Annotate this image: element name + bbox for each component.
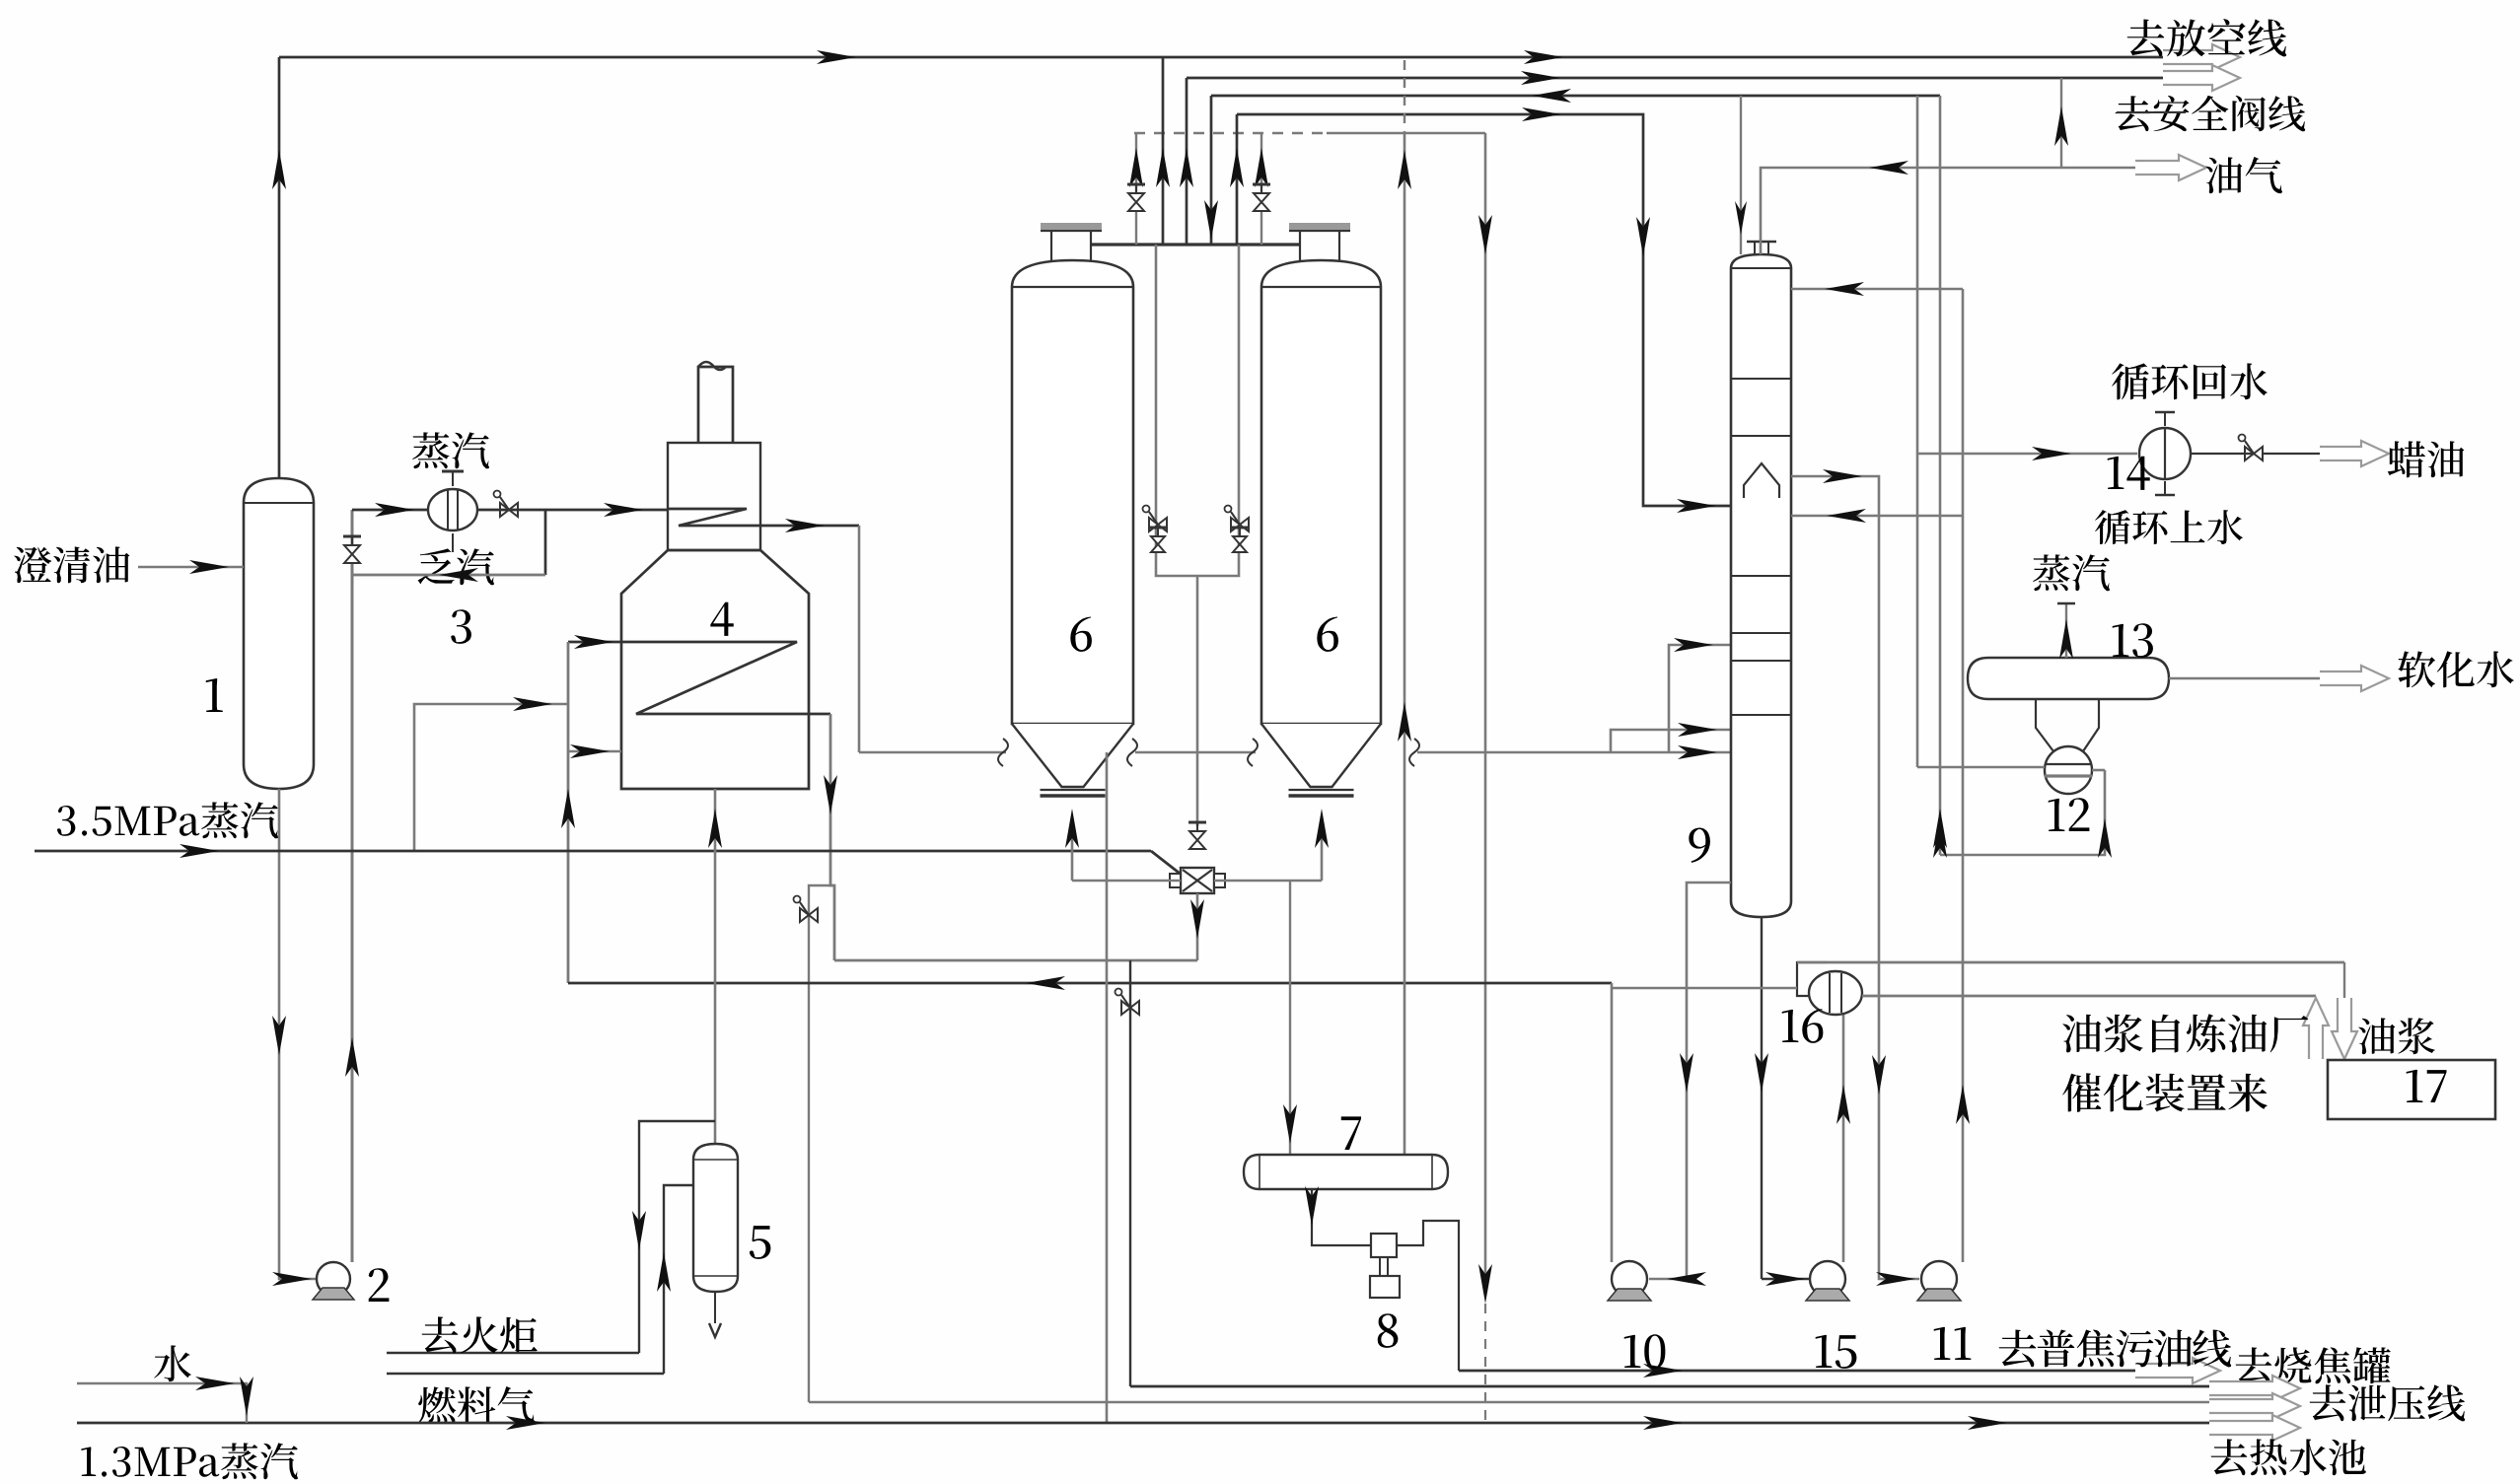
pipe 3.5MPa steam bbox=[35, 850, 1151, 853]
pump 2 bbox=[317, 1262, 350, 1296]
outline arrow slurry out bbox=[2303, 998, 2329, 1059]
pipe to exchanger 3 bbox=[352, 509, 429, 512]
outline arrow oil gas bbox=[2135, 155, 2206, 180]
pipe water makeup bbox=[77, 1383, 247, 1423]
vessel 5 drain bbox=[714, 1292, 716, 1323]
pipe safety-valve header bbox=[1187, 77, 2163, 80]
label 燃料气 bbox=[418, 1386, 535, 1423]
pipe recycle header (flow left) bbox=[1211, 95, 1940, 98]
pipe slurry header bbox=[834, 959, 1197, 962]
heat exchanger 16 bbox=[1797, 962, 1827, 996]
pipe slurry riser 1967 bbox=[1939, 96, 1942, 855]
pipe dropper x1122 bbox=[1106, 752, 1109, 1423]
pipe riser x1424 bbox=[1404, 60, 1405, 132]
label 蒸汽 exch3 bbox=[412, 432, 489, 468]
label pump 11 bbox=[1934, 1327, 1972, 1360]
riser a bbox=[1135, 133, 1137, 245]
cross slide valve bbox=[1181, 868, 1214, 893]
pipe bypass right leg bbox=[544, 510, 547, 575]
label 水 bbox=[154, 1345, 191, 1381]
riser e bbox=[1236, 114, 1239, 245]
valve standpipe left b bbox=[1151, 536, 1165, 552]
pipe coil exit upper leg bbox=[858, 526, 861, 752]
slurry tank 17 bbox=[2328, 1060, 2495, 1119]
label pump 15 bbox=[1816, 1335, 1857, 1369]
pipe exchanger line B bbox=[1862, 995, 2316, 998]
pipe cross to reactorA bbox=[1071, 823, 1074, 881]
reactor 6 right bbox=[1261, 260, 1381, 724]
manifold plate bbox=[1092, 243, 1300, 246]
pipe vessel1 vent bbox=[278, 57, 281, 478]
valve standpipe right bbox=[1231, 518, 1249, 531]
steam drum 13 bbox=[1968, 658, 2169, 699]
valve on bypass bbox=[344, 545, 360, 563]
label 去烧焦罐 bbox=[2236, 1347, 2391, 1383]
label 1.3MPa蒸汽 bbox=[81, 1443, 298, 1479]
label furnace 4 bbox=[710, 602, 733, 636]
pump 10 bbox=[1612, 1261, 1647, 1297]
riser d bbox=[1210, 96, 1213, 245]
pipe line3 to column riser bbox=[1740, 96, 1742, 254]
pipe fuel gas line bbox=[664, 1185, 693, 1374]
label vessel 7 bbox=[1341, 1116, 1361, 1150]
label exchanger 3 bbox=[451, 609, 471, 644]
column 9 shell bbox=[1731, 254, 1791, 917]
label 去安全阀线 bbox=[2116, 96, 2306, 131]
vessel 5 bbox=[693, 1144, 738, 1292]
pipe dropper x1146 with valve bbox=[1129, 960, 1131, 1386]
vessel 1 column bbox=[244, 478, 314, 789]
column 9 vapor chevron bbox=[1744, 463, 1779, 498]
pipe steam branch to furnace bbox=[414, 704, 568, 851]
label 去热水池 bbox=[2211, 1439, 2366, 1475]
pipe transfer line left bbox=[859, 751, 1006, 754]
pipe 8 discharge bbox=[1397, 1221, 1459, 1371]
instrument 8 lower box bbox=[1370, 1276, 1400, 1298]
pipe sloppy oil line bbox=[1459, 1370, 2135, 1373]
label 油浆自炼油厂 bbox=[2062, 1014, 2308, 1052]
pipe quench header bbox=[1237, 114, 1731, 506]
pipe return 523 bbox=[1791, 515, 1963, 518]
pipe decoking line bbox=[1130, 1385, 2209, 1388]
pump 11 bbox=[1921, 1261, 1957, 1297]
pump 14 (cooler) bbox=[2139, 428, 2191, 479]
pipe 1.3MPa steam bbox=[77, 1422, 2209, 1425]
pipe pump11 discharge bbox=[1962, 289, 1965, 1262]
outline arrow soft water bbox=[2320, 666, 2389, 691]
pipe blowdown leg with valve bbox=[809, 885, 832, 1402]
pipe recycle oil line bbox=[568, 982, 1612, 985]
outline arrow safety valve line bbox=[2163, 65, 2240, 91]
label 17 bbox=[2407, 1070, 2447, 1102]
pipe exchanger feed bbox=[1612, 987, 1797, 989]
pipe pump10 discharge bbox=[1611, 983, 1614, 1262]
pipe flare line bbox=[639, 1121, 715, 1353]
valve on dropper 1146 bbox=[1121, 1001, 1139, 1015]
label 去火炬 bbox=[422, 1316, 538, 1353]
label 乏汽 bbox=[418, 548, 494, 585]
label 12 bbox=[2049, 798, 2090, 831]
pipe standpipe center bbox=[1196, 576, 1199, 826]
pipe column bottoms bbox=[1761, 917, 1763, 1279]
outline arrow slurry in bbox=[2332, 998, 2357, 1059]
pipe wax oil out bbox=[2191, 453, 2254, 455]
valve after 14 bbox=[2245, 447, 2263, 460]
tick under label bbox=[2117, 111, 2186, 113]
pipe pump15 discharge bbox=[1842, 1014, 1845, 1262]
valve riser f bbox=[1254, 193, 1269, 211]
pipe exchanger outlet to furnace bbox=[476, 509, 668, 512]
valve standpipe right b bbox=[1233, 536, 1247, 552]
label reactor 6 left bbox=[1070, 617, 1092, 652]
label 3.5MPa蒸汽 bbox=[57, 802, 278, 838]
furnace 4 lower coil bbox=[568, 642, 830, 714]
pipe furnace entry 2 bbox=[568, 750, 621, 753]
outline arrow vent line bbox=[2163, 44, 2240, 70]
label 去泄压线 bbox=[2310, 1384, 2466, 1421]
pipe cross discharge bbox=[1196, 893, 1199, 960]
furnace 4 body bbox=[621, 550, 809, 789]
pipe column bottom left draw bbox=[1649, 883, 1731, 1279]
valve riser a bbox=[1128, 193, 1144, 211]
pipe column entry 654 stub bbox=[1669, 645, 1731, 752]
label vessel 5 bbox=[750, 1226, 771, 1259]
pipe furnace coil exit downleg bbox=[830, 714, 834, 960]
label 循环上水 bbox=[2095, 510, 2243, 544]
label column 9 bbox=[1689, 828, 1710, 863]
label reactor 6 right bbox=[1317, 617, 1338, 652]
pipe cross to reactorB bbox=[1321, 823, 1324, 881]
label pump 10 bbox=[1624, 1334, 1666, 1369]
pipe to pump 14 bbox=[1917, 453, 2137, 455]
outline arrow relief bbox=[2209, 1393, 2300, 1419]
vessel 7 bbox=[1244, 1155, 1448, 1189]
pipe oilgas to safety header bbox=[2060, 78, 2062, 168]
pipe relief line bbox=[809, 1401, 2209, 1404]
pipe dashed manifold header bbox=[1134, 132, 1327, 135]
label vessel 1 bbox=[206, 678, 223, 712]
pipe drum steam out bbox=[2065, 603, 2067, 658]
outline arrow wax oil bbox=[2320, 441, 2389, 466]
riser c bbox=[1186, 78, 1188, 245]
outline arrow sloppy oil bbox=[2135, 1358, 2220, 1383]
valve on blowdown leg bbox=[800, 908, 818, 922]
valve above cross bbox=[1189, 831, 1205, 849]
pipe drum to soft water bbox=[2169, 677, 2320, 679]
pump 12 bbox=[2045, 746, 2092, 794]
pipe column entry upper stub bbox=[1611, 730, 1731, 752]
outline arrow decoking bbox=[2209, 1376, 2300, 1401]
label 澄清油 bbox=[14, 546, 129, 583]
furnace 4 upper coil bbox=[668, 509, 859, 526]
label 软化水 bbox=[2398, 651, 2514, 687]
pump 15 bbox=[1810, 1261, 1845, 1297]
pipe overhead to oilgas bbox=[1761, 168, 2135, 254]
pipe column top return bbox=[1791, 288, 1963, 291]
riser f bbox=[1260, 133, 1262, 245]
label 蜡油 bbox=[2388, 441, 2465, 477]
label 油气 bbox=[2205, 157, 2282, 193]
drum downcomers to pump 12 bbox=[2036, 699, 2053, 751]
pipe vent header to flare (top line) bbox=[279, 56, 2163, 59]
instrument 8 stem bbox=[1379, 1257, 1381, 1276]
pipe transfer line mid bbox=[1135, 751, 1256, 754]
pipe to vessel 7 left bbox=[1289, 881, 1291, 1155]
valve after exchanger 3 bbox=[500, 503, 518, 517]
heat exchanger 3 bbox=[428, 489, 477, 530]
riser b bbox=[1162, 57, 1165, 245]
label 14 bbox=[2108, 457, 2150, 490]
label 蒸汽 drum bbox=[2033, 554, 2110, 591]
pipe feed 澄清油 bbox=[138, 566, 244, 569]
outline arrow hot water pool bbox=[2209, 1415, 2300, 1441]
pipe pump12 line bbox=[1917, 766, 2045, 769]
pipe wax draw 483 bbox=[1791, 476, 1919, 1279]
pipe exchanger line A bbox=[1797, 961, 2344, 964]
label 油浆 bbox=[2358, 1018, 2435, 1054]
furnace 4 chimney bbox=[698, 367, 733, 443]
label pump 2 bbox=[369, 1268, 390, 1302]
standpipe U bbox=[1156, 245, 1239, 576]
pipe transfer line right bbox=[1417, 751, 1731, 754]
reactor 6 left bbox=[1012, 260, 1133, 724]
column 9 trays bbox=[1731, 378, 1791, 380]
label 16 bbox=[1782, 1009, 1824, 1043]
label 催化装置来 bbox=[2062, 1073, 2267, 1111]
furnace 4 upper box bbox=[668, 443, 760, 550]
vessel 7 drain to 8 bbox=[1311, 1189, 1313, 1235]
pipe pump2 discharge riser bbox=[351, 510, 354, 1262]
instrument 8 upper box bbox=[1371, 1234, 1397, 1257]
label 8 bbox=[1378, 1313, 1399, 1348]
column 9 top nozzle bbox=[1754, 243, 1756, 254]
label 去普焦污油线 bbox=[1999, 1330, 2232, 1368]
pipe feed riser to furnace bbox=[567, 642, 570, 983]
pipe vessel1 bottom to pump2 bbox=[279, 789, 318, 1279]
pipe fuel to furnace bbox=[714, 789, 717, 1144]
pipe riser 1944 bbox=[1916, 96, 1919, 767]
pipe bypass bottom bbox=[352, 574, 545, 577]
label 13 bbox=[2113, 623, 2153, 658]
label 循环回水 bbox=[2112, 363, 2268, 399]
label 去放空线 bbox=[2127, 19, 2287, 56]
valve standpipe left bbox=[1149, 518, 1167, 531]
